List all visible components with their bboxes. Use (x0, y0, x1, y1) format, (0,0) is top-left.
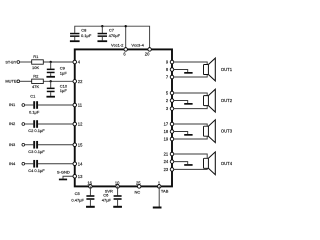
wire MUTE to R2 (20, 80, 32, 82)
ground (below C10) (46, 96, 55, 98)
svg-text:MUTE: MUTE (5, 79, 16, 84)
pin 1 TAB (157, 185, 161, 189)
pin 17 OUT3+ (170, 122, 174, 126)
pin 14 IN4 (73, 162, 77, 166)
terminal ST-BY (17, 61, 20, 64)
pin 2 PW-GND (170, 99, 174, 103)
terminal IN1 (22, 104, 25, 107)
svg-text:TAB: TAB (161, 188, 169, 193)
svg-text:R2: R2 (33, 73, 39, 78)
wire C3 to pin 15 (38, 144, 73, 146)
svg-text:47μF: 47μF (102, 198, 112, 203)
capacitor C1 0.1uF (33, 101, 35, 109)
svg-text:IN3: IN3 (9, 142, 16, 147)
wire pin 9 to speaker (174, 62, 207, 65)
svg-text:47K: 47K (32, 84, 39, 89)
svg-text:1μF: 1μF (60, 88, 68, 93)
wire pin 23 to speaker (174, 168, 207, 169)
svg-text:17: 17 (164, 122, 169, 127)
svg-text:10: 10 (115, 180, 120, 185)
wire pin 3 to speaker (174, 106, 207, 109)
pin 15 IN3 (73, 143, 77, 147)
wire TAB to ground (158, 186, 160, 206)
node junction MUTE/C10 (50, 80, 52, 82)
svg-text:C1: C1 (30, 94, 36, 99)
speaker OUT2 (204, 89, 216, 112)
svg-text:IN1: IN1 (9, 102, 16, 107)
pin 13 S-GND (73, 175, 77, 179)
svg-text:IN2: IN2 (9, 121, 16, 126)
node junction ST-BY/C9 (50, 61, 52, 63)
ground (S-GND) (59, 179, 67, 181)
wire C1 to pin 11 (38, 104, 73, 106)
node junction Vcc1-2/rail (125, 25, 127, 27)
svg-text:R1: R1 (33, 54, 39, 59)
svg-text:1μF: 1μF (60, 71, 68, 76)
pin 24 PW-GND (170, 160, 174, 164)
node junction C7/rail (101, 25, 103, 27)
wire pin 17 to speaker (174, 124, 207, 126)
pin 20 Vcc3-4 (148, 48, 152, 52)
svg-text:C5: C5 (75, 191, 81, 196)
wire pin 19 to speaker (174, 136, 207, 139)
svg-text:OUT1: OUT1 (221, 67, 233, 72)
ground (below C9) (46, 76, 55, 78)
svg-text:OUT2: OUT2 (221, 98, 233, 103)
wire pin 8 to ground tick (174, 70, 188, 73)
pin 16 (89, 185, 93, 189)
svg-text:ST-BY: ST-BY (5, 60, 16, 64)
svg-text:C3 0.1μF: C3 0.1μF (28, 149, 45, 154)
wire Vs supply rail (75, 26, 150, 47)
svg-text:C8: C8 (81, 28, 87, 33)
capacitor C4 0.1uF (33, 160, 35, 168)
svg-text:20: 20 (145, 52, 150, 57)
pin 7 OUT1- (170, 75, 174, 79)
terminal IN3 (22, 143, 25, 146)
svg-text:18: 18 (164, 129, 169, 134)
wire R2 to pin 22 (43, 80, 73, 82)
svg-text:C4 0.1μF: C4 0.1μF (28, 168, 45, 173)
svg-text:470μF: 470μF (109, 33, 121, 38)
resistor R1 10K (32, 60, 44, 64)
wire pin13 to ground (63, 176, 73, 178)
wire pin 24 to ground tick (174, 162, 188, 165)
svg-text:24: 24 (164, 159, 169, 164)
wire Vcc1-2 drop (125, 26, 127, 47)
capacitor C5 0.47uF (89, 186, 91, 195)
pin 19 OUT3- (170, 137, 174, 141)
svg-text:19: 19 (164, 137, 169, 142)
svg-text:NC: NC (135, 190, 141, 195)
ground (TAB) (153, 207, 162, 209)
svg-text:IN4: IN4 (9, 161, 16, 166)
svg-text:14: 14 (78, 161, 83, 166)
capacitor C7 470uF (101, 26, 103, 33)
svg-text:S-GND: S-GND (57, 170, 70, 175)
wire pin 18 to ground tick (174, 132, 188, 135)
wire IN2 to C2 (25, 123, 34, 125)
capacitor C8 0.1uF (70, 33, 79, 35)
pin 18 PW-GND (170, 130, 174, 134)
terminal IN2 (22, 123, 25, 126)
speaker OUT1 (204, 58, 216, 81)
pin 25 NC (137, 185, 141, 189)
ground (below C8) (70, 40, 80, 42)
svg-text:12: 12 (78, 122, 83, 127)
terminal IN4 (22, 162, 25, 165)
wire pin 21 to speaker (174, 154, 207, 158)
wire ST-BY to R1 (20, 61, 32, 63)
pin 11 IN1 (73, 103, 77, 107)
capacitor C2 0.1uF (33, 120, 35, 128)
wire pin 7 to speaker (174, 75, 207, 78)
svg-text:10K: 10K (32, 65, 39, 70)
op-amp U1 (quad power amplifier IC body) (75, 49, 172, 186)
svg-text:16: 16 (87, 180, 92, 185)
pin 5 OUT2+ (170, 91, 174, 95)
capacitor C9 1uF (50, 62, 52, 69)
wire IN4 to C4 (25, 163, 34, 165)
wire IN1 to C1 (25, 104, 34, 106)
svg-text:11: 11 (78, 103, 83, 108)
capacitor C10 1uF (50, 81, 52, 88)
svg-text:13: 13 (78, 174, 83, 179)
svg-text:Vcc3-4: Vcc3-4 (131, 43, 144, 48)
svg-text:OUT4: OUT4 (221, 161, 233, 166)
svg-text:Vcc1-2: Vcc1-2 (111, 43, 124, 48)
svg-text:C2 0.1μF: C2 0.1μF (28, 128, 45, 133)
capacitor C6 47uF (117, 186, 119, 195)
terminal MUTE (17, 80, 20, 83)
wire R1 to pin 4 (43, 61, 73, 63)
svg-text:C7: C7 (109, 28, 115, 33)
svg-text:15: 15 (78, 142, 83, 147)
ground (below C5) (86, 206, 95, 208)
wire C4 to pin 14 (38, 163, 73, 165)
ground (PW-GND tick) (184, 164, 192, 166)
ground (PW-GND tick) (184, 72, 192, 74)
ground (PW-GND tick) (184, 103, 192, 105)
svg-text:OUT3: OUT3 (221, 129, 233, 134)
pin 12 IN2 (73, 122, 77, 126)
ground (below C6) (113, 206, 122, 208)
pin 9 OUT1+ (170, 60, 174, 64)
wire C2 to pin 12 (38, 123, 73, 125)
pin 21 OUT4+ (170, 152, 174, 156)
wire pin 5 to speaker (174, 93, 207, 96)
pin 6 Vcc1-2 (124, 48, 128, 52)
ground (below C7) (97, 40, 107, 42)
svg-text:0.1μF: 0.1μF (81, 33, 92, 38)
svg-text:25: 25 (136, 180, 141, 185)
svg-text:21: 21 (164, 152, 169, 157)
wire IN3 to C3 (25, 144, 34, 146)
ground (PW-GND tick) (184, 134, 192, 136)
svg-text:22: 22 (78, 79, 83, 84)
speaker OUT3 (204, 120, 216, 143)
capacitor C3 0.1uF (33, 141, 35, 149)
pin 4 ST-BY (73, 60, 77, 64)
speaker OUT4 (204, 152, 216, 175)
resistor R2 47K (32, 79, 44, 83)
pin 22 MUTE (73, 80, 77, 84)
svg-text:23: 23 (164, 167, 169, 172)
svg-text:0.1μF: 0.1μF (29, 110, 40, 115)
svg-text:0.47μF: 0.47μF (71, 198, 84, 203)
pin 8 PW-GND (170, 68, 174, 72)
pin 10 SVR (116, 185, 120, 189)
wire pin 2 to ground tick (174, 101, 188, 104)
pin 3 OUT2- (170, 107, 174, 111)
pin 23 OUT4- (170, 168, 174, 172)
